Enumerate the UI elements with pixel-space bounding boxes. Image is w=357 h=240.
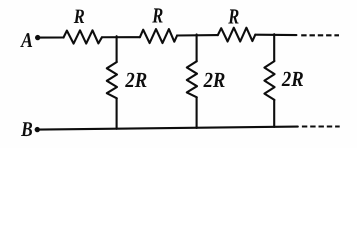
bottom rail wire from B	[39, 127, 298, 130]
wire node 1 down to R4	[116, 36, 118, 62]
bottom rail dashed continuation	[302, 125, 340, 127]
svg-text:R: R	[228, 4, 240, 28]
wire node 2 down to R5	[196, 34, 198, 61]
svg-text:2R: 2R	[281, 67, 304, 91]
wire R5 to bottom rail	[196, 97, 198, 128]
resistor R3	[218, 28, 256, 42]
svg-text:A: A	[19, 28, 32, 52]
resistor R6 2R	[264, 61, 274, 100]
resistor R4 2R	[107, 62, 117, 98]
svg-text:R: R	[73, 6, 85, 28]
wire R4 to bottom rail	[116, 98, 118, 129]
wire A to R1	[39, 36, 64, 38]
svg-text:B: B	[20, 117, 32, 141]
top rail dashed continuation	[301, 34, 339, 36]
wire R2 to R3 node 2	[177, 34, 218, 37]
svg-text:2R: 2R	[203, 68, 226, 92]
resistor R2	[140, 29, 177, 43]
wire node 3 down to R6	[273, 34, 275, 61]
resistor R1	[64, 30, 102, 43]
resistor R5 2R	[187, 61, 197, 97]
wire R6 to bottom rail	[273, 100, 275, 127]
svg-text:R: R	[152, 3, 164, 27]
node A terminal dot	[35, 35, 40, 40]
svg-text:2R: 2R	[125, 68, 148, 92]
wire R3 to top right edge	[255, 34, 296, 36]
wire R1 to R2 node 1	[102, 36, 140, 38]
node B terminal dot	[35, 127, 40, 132]
